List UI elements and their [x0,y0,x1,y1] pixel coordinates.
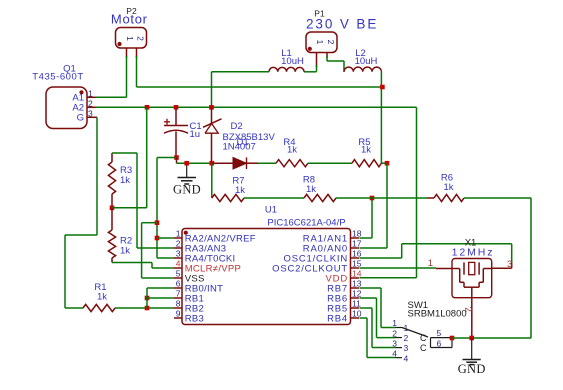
SW1 pin 2 stub [396,337,403,339]
node junction RA1/R6 rail [370,196,375,201]
svg-text:GND: GND [173,183,201,197]
Q1 pin stubs [87,96,96,98]
node L2/mains junction [380,85,385,90]
wire P1 pin2 to L2 [326,56,328,61]
svg-text:5: 5 [437,328,442,338]
node junction RA2 tap [155,236,160,241]
wire R4 to R5 [308,162,352,164]
node junction A2/C1 [174,105,179,110]
wire R7 to R8 [244,197,304,199]
svg-text:U1: U1 [265,205,277,216]
node junction R5/RA0 column [385,161,390,166]
U1 pin 5 stub [174,277,182,279]
P2 pin 2 leg [136,48,138,58]
wire OSC2 pin15 to X1 pin1 [360,267,437,269]
SW1 pin 3 stub [396,347,403,349]
wire P1 pin1 to L1 [316,65,318,72]
P1 pin 2 leg [326,53,328,59]
U1 pin 17 stub [351,247,360,249]
svg-text:13: 13 [352,279,362,289]
U1 pin 16 stub [351,257,360,259]
wire RB0 chain [146,288,148,308]
svg-text:PIC16C621A-04/P: PIC16C621A-04/P [267,218,345,229]
svg-text:2: 2 [326,40,336,45]
svg-text:10uH: 10uH [281,56,304,67]
wire OSC1 pin16 to X1 pin3 [360,257,402,259]
wire A2 column down to R3/R2 node [146,107,148,208]
node junction RB2 tap [145,306,150,311]
wire RA1 pin18 up to gate rail [360,237,373,239]
connector P2 Motor [116,28,147,49]
wire Q1 gate down-left to R1 [96,117,98,235]
U1 pin 8 stub [174,307,182,309]
inductor L1 10uH [269,67,304,71]
svg-text:15: 15 [352,259,362,269]
node junction SW common [450,336,455,341]
SW1 pin 1 stub [396,327,403,329]
svg-text:10uH: 10uH [355,56,378,67]
node junction GND tap [184,161,189,166]
U1 pin 4 stub [174,267,182,269]
svg-text:230 V BE: 230 V BE [306,17,378,32]
node junction D2 bottom [210,161,215,166]
svg-text:T435-600T: T435-600T [32,72,83,83]
wire L2 right drop [380,72,382,163]
SW1 lever [402,328,428,338]
svg-text:G: G [77,113,84,124]
svg-text:RB3: RB3 [185,313,204,324]
svg-text:1: 1 [315,40,325,45]
ground GND upper [186,163,188,177]
svg-text:6: 6 [176,279,181,289]
svg-text:SRBM1L0800: SRBM1L0800 [408,309,467,320]
svg-text:C: C [420,333,427,343]
U1 pin 12 stub [351,297,360,299]
svg-text:5: 5 [176,269,181,279]
wire RB6 pin12 to SW1 pin2 [360,297,377,299]
svg-text:17: 17 [352,239,362,249]
node junction X1 pin2 / GND [469,336,474,341]
svg-text:1N4007: 1N4007 [223,141,256,152]
wire VDD pin14 from A2 rail [416,107,418,277]
svg-text:1k: 1k [287,144,297,155]
svg-text:11: 11 [352,299,361,309]
wire junction down to pin17 RA0 [386,163,388,248]
svg-text:1k: 1k [443,182,453,193]
svg-text:2: 2 [135,36,145,41]
svg-text:Motor: Motor [111,12,148,27]
svg-text:2: 2 [404,333,409,343]
wire A2 rail [96,106,417,108]
wire to VSS pin5 [142,222,157,224]
inductor L2 10uH [344,67,381,72]
wire Motor pin1 to Q1 A1 [126,56,128,97]
capacitor C1 1u [175,107,177,125]
svg-text:RB4: RB4 [327,313,348,324]
wire C1 bottom to GND rail [157,157,177,159]
wire R8 to R6 [336,197,427,199]
svg-text:16: 16 [352,249,362,259]
svg-text:GND: GND [458,362,486,376]
svg-text:1k: 1k [306,184,316,195]
wire RB7 pin13 to SW1 pin1 [360,287,382,289]
svg-text:1: 1 [428,258,433,269]
svg-text:6: 6 [437,338,442,348]
svg-text:2: 2 [176,239,181,249]
svg-text:1: 1 [176,229,181,239]
svg-text:3: 3 [404,343,409,353]
P1 pin 1 leg [316,53,318,68]
svg-text:1k: 1k [97,292,107,303]
node junction C1 bottom [174,155,179,160]
node junction A2/D2 [209,105,214,110]
svg-text:9: 9 [176,309,181,319]
wire to RA4 pin3 [157,257,174,259]
svg-text:8: 8 [176,299,181,309]
U1 pin 1 stub [174,237,182,239]
U1 pin 9 stub [174,317,182,319]
svg-text:4: 4 [392,348,397,358]
svg-text:4: 4 [176,259,181,269]
wire ground rail [452,337,472,339]
wire to RA2 pin1 [157,237,174,239]
svg-text:18: 18 [352,229,362,239]
wire D1 to R4 [258,162,276,164]
op-amp U1 PIC16C621A-04/P microcontroller [182,229,351,325]
svg-text:4: 4 [404,353,409,363]
svg-text:10: 10 [352,309,362,319]
U1 pin 6 stub [174,287,182,289]
svg-text:3: 3 [392,338,397,348]
node junction VSS tap [155,220,160,225]
diode D2 BZX85B13V zener [211,107,213,124]
wire RB5 pin11 to SW1 pin3 [360,307,373,309]
U1 pin 2 stub [174,247,182,249]
wire L1 left to D2 column [212,71,270,73]
U1 pin 13 stub [351,287,360,289]
SW1 pin 4 stub [396,357,403,359]
svg-text:C: C [420,343,427,353]
wire R2 bottom to MCLR pin4 [112,262,152,264]
svg-text:12: 12 [352,289,362,299]
wire D2 node down to R7 [211,163,213,198]
svg-text:D2: D2 [231,121,243,132]
U1 pin 18 stub [351,237,360,239]
svg-text:2: 2 [392,328,397,338]
U1 pin 11 stub [351,307,360,309]
wire R5 right to junction [381,162,387,164]
ground GND lower [471,338,473,359]
svg-text:1k: 1k [120,246,130,257]
svg-text:1k: 1k [361,144,371,155]
X1 pin 2 lead [471,287,473,298]
svg-text:3: 3 [176,249,181,259]
U1 pin 7 stub [174,297,182,299]
U1 pin 14 stub [351,277,360,279]
wire R6 right to ground rail [464,197,531,199]
U1 pin 15 stub [351,267,360,269]
svg-text:7: 7 [176,289,181,299]
svg-text:1k: 1k [120,175,130,186]
svg-text:12MHz: 12MHz [452,247,495,259]
wire R3 top to RA3 column [112,152,137,154]
U1 pin 10 stub [351,317,360,319]
transistor Q1 T435-600T [46,87,87,129]
SW1 common pins 5/6 [430,338,432,348]
svg-text:1: 1 [125,36,135,41]
svg-text:1: 1 [392,318,397,328]
wire Motor pin2 rail [136,56,138,87]
node junction RB1 tap [145,296,150,301]
node junction A2/R2R3 column [145,105,150,110]
wire GND branch column [156,158,158,259]
wire RB4 pin10 to SW1 pin4 [360,317,368,319]
connector P1 230 V BE [306,32,337,53]
U1 pin 3 stub [174,257,182,259]
svg-text:1u: 1u [190,129,201,140]
P2 pin 1 leg [126,48,128,58]
node junction R3/R2 [110,206,115,211]
